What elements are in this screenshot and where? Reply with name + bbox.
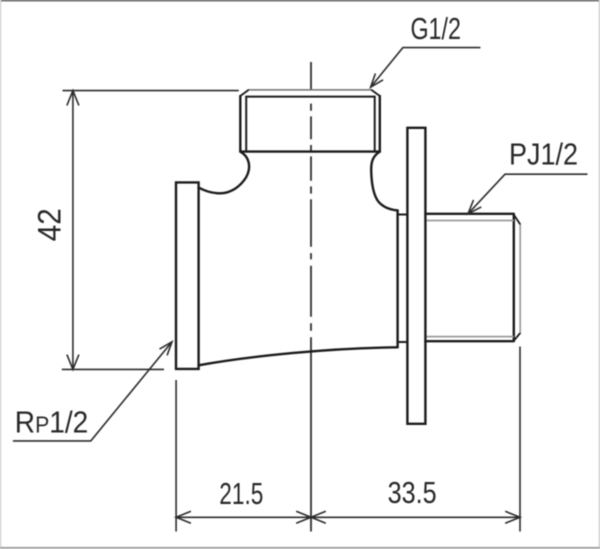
bottom dim arrows center crossing	[296, 511, 326, 523]
bottom dimension line	[176, 516, 520, 518]
PJ1/2 thread top root line	[427, 220, 514, 222]
G1/2 thread full-form line	[246, 96, 375, 98]
svg-text:33.5: 33.5	[388, 475, 437, 510]
G1/2 leader arrow	[371, 74, 384, 88]
PJ1/2 thread top crest	[425, 213, 513, 215]
G1/2 leader	[371, 48, 481, 88]
dim 42 top extension line	[63, 90, 239, 92]
centerline vertical axis (dash-dot)	[310, 62, 312, 331]
border frame top	[0, 0, 600, 1]
G1/2 thread end face (thin)	[249, 89, 372, 91]
border frame right	[599, 0, 600, 549]
body bottom curve	[199, 347, 398, 365]
PJ1/2 thread end face (thin)	[519, 224, 521, 333]
svg-text:42: 42	[31, 208, 67, 241]
G1/2 thread right chamfer	[371, 90, 379, 96]
G1/2 thread left root line	[245, 97, 247, 152]
dim 42 dimension line	[72, 91, 74, 370]
body right S-curve	[371, 152, 397, 211]
dim 42 top arrow	[67, 91, 79, 106]
neck top line	[398, 214, 408, 216]
svg-text:G1/2: G1/2	[410, 11, 461, 46]
border frame left	[0, 0, 1, 549]
border frame bottom	[0, 547, 600, 549]
PJ1/2 thread bottom root line	[427, 336, 514, 338]
Rp1/2 leader arrow	[160, 342, 173, 356]
PJ1/2 thread bottom crest	[425, 340, 513, 342]
G1/2 thread right root line	[374, 97, 376, 152]
body right edge	[396, 210, 398, 347]
svg-text:21.5: 21.5	[219, 476, 263, 511]
PJ1/2 leader arrow	[468, 200, 481, 214]
PJ1/2 thread full-form line	[513, 215, 515, 341]
body left fillet curve	[199, 152, 250, 194]
G1/2 thread bottom edge	[240, 150, 379, 152]
bottom left extension line	[175, 380, 177, 532]
Rp1/2 leader	[13, 342, 172, 441]
bottom dim arrow left	[176, 511, 191, 523]
bottom dim arrow right	[505, 511, 520, 523]
G1/2 thread left crest edge	[239, 96, 241, 152]
svg-text:RP1/2: RP1/2	[15, 405, 89, 440]
svg-text:PJ1/2: PJ1/2	[509, 137, 578, 172]
PJ1/2 thread top chamfer	[514, 215, 520, 225]
bottom right extension line	[519, 347, 521, 532]
dim 42 bottom arrow	[67, 355, 79, 370]
PJ1/2 leader	[468, 174, 588, 214]
dim 42 bottom extension line	[62, 368, 164, 370]
G1/2 thread left chamfer	[240, 90, 248, 96]
neck bottom line	[398, 341, 408, 343]
PJ1/2 thread bottom chamfer	[514, 333, 520, 341]
wall flange Rp1/2	[176, 182, 199, 369]
extension line center (below body, solid to dimension)	[310, 337, 312, 531]
G1/2 thread right crest edge	[379, 96, 381, 152]
wall plate	[407, 128, 425, 424]
